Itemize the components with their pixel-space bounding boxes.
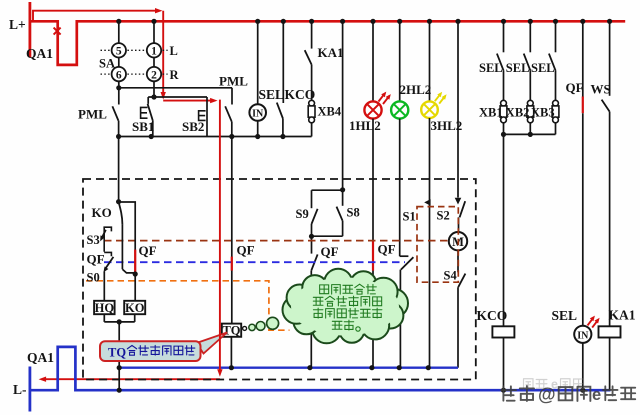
wire 3HL2 down (S1 branch)	[429, 118, 431, 368]
svg-text:S1: S1	[403, 210, 416, 224]
wire bus to IN lamp	[257, 21, 259, 104]
svg-text:5: 5	[116, 46, 122, 58]
linkage line S0-TQ (orange dashed)	[86, 281, 290, 330]
wire red highlight on KO bypass	[134, 250, 136, 274]
svg-text:TQ: TQ	[222, 324, 240, 338]
contact SEL #1	[503, 21, 505, 52]
svg-text:S2: S2	[437, 209, 450, 223]
lamp IN (SEL indicator)	[249, 104, 266, 121]
motor M (spring charging)	[449, 232, 467, 250]
wire XB1-XB3 junction	[504, 133, 556, 135]
breaker QA1 open-position x mark	[54, 28, 61, 35]
svg-text:2: 2	[151, 69, 157, 81]
mechanism arrow S2	[455, 198, 462, 205]
cloud text line1 在开关合闸	[320, 285, 329, 294]
node junction 6-branch	[116, 85, 121, 90]
SA dotted leaders row 1	[101, 49, 111, 51]
wire L+ bus with QA1 dip	[30, 21, 625, 65]
coil KCO	[492, 326, 514, 337]
wire bus to 2HL2	[399, 21, 401, 101]
wire XB1 down	[503, 123, 505, 135]
coil TQ (tripping)	[222, 324, 241, 337]
svg-text:KA1: KA1	[318, 45, 344, 60]
selector SA contact 2	[147, 67, 161, 81]
pushbutton SB1	[147, 97, 149, 104]
contact KA1 (NO)	[311, 21, 313, 48]
wire coils to L- bus	[118, 322, 120, 390]
wire bus to SA contact 5	[118, 21, 120, 43]
svg-text:QA1: QA1	[26, 46, 53, 61]
wire XB3 down	[555, 123, 557, 135]
wire QF red highlight	[582, 97, 584, 114]
wire L- main bus with QA1 step	[30, 347, 611, 390]
wire red current-flow arrow (top)	[33, 11, 157, 22]
contact KCO	[282, 21, 284, 103]
svg-text:HQ: HQ	[95, 301, 115, 315]
pushbutton SB2	[206, 97, 208, 137]
svg-text:TQ: TQ	[108, 345, 126, 359]
wire blue bus (inner, mechanism)	[119, 367, 458, 369]
svg-text:IN: IN	[252, 109, 264, 120]
svg-text:IN: IN	[577, 331, 589, 342]
wire node to KO coil	[134, 274, 136, 301]
wire QF branch down to SEL lamp	[582, 113, 584, 326]
annotation cloud	[283, 269, 409, 344]
mechanism enclosure (black dashed box)	[83, 179, 476, 380]
wire bus down to S9/S8 loop	[342, 21, 344, 190]
lamp 2HL2 (green)	[391, 101, 408, 118]
contact KO	[119, 202, 123, 225]
node L+ terminal bar	[28, 2, 31, 58]
svg-text:SEL: SEL	[479, 61, 503, 75]
svg-text:XB3: XB3	[531, 106, 555, 120]
wire bus to 3HL2	[429, 21, 431, 101]
coil KO	[124, 301, 145, 314]
svg-text:S3: S3	[87, 233, 100, 247]
coil KA1	[599, 326, 621, 337]
wire KCO coil to L- bus	[503, 338, 505, 391]
wire KA1 coil to L- bus	[609, 338, 611, 391]
wire SA2 down to node	[153, 81, 155, 97]
contact SEL #3	[555, 21, 557, 52]
contact PML (right)	[231, 88, 233, 105]
cloud text line2 过程中分闸弹	[313, 297, 323, 305]
contact QF (S9 branch)	[311, 236, 313, 253]
selector SA contact 6	[112, 67, 126, 81]
fuse XB4	[309, 100, 315, 106]
thought bubble trail	[243, 326, 247, 330]
svg-text:KA1: KA1	[609, 308, 636, 323]
contact SEL #2	[529, 21, 531, 52]
svg-text:PML: PML	[219, 74, 248, 89]
wire horizontal y97 SB1 to SB2	[148, 96, 207, 98]
svg-text:L+: L+	[9, 17, 26, 32]
wire junction down to KCO coil	[503, 134, 505, 326]
wire bus down into box (left)	[118, 137, 120, 203]
svg-text:6: 6	[116, 69, 122, 81]
node above KO coil	[133, 271, 138, 276]
node dots on L+ bus	[116, 19, 121, 24]
lamp SEL IN (lit)	[574, 326, 591, 343]
svg-text:QF: QF	[566, 80, 584, 95]
fuse XB1	[501, 100, 507, 106]
fuse XB3	[553, 100, 559, 106]
wire red highlight on 1HL2 branch	[372, 241, 374, 271]
wire control bus y136.5	[119, 136, 312, 138]
svg-text:SEL: SEL	[552, 308, 578, 323]
SA dotted leaders row 2	[101, 73, 111, 75]
contact QF/S0 with arrow blade	[105, 257, 114, 270]
svg-text:KO: KO	[92, 205, 112, 220]
wire red current-flow vertical to SA	[162, 11, 164, 94]
svg-text:SEL: SEL	[259, 87, 285, 102]
svg-text:1: 1	[151, 46, 157, 58]
svg-text:e: e	[592, 386, 601, 404]
wire 5 to 6	[118, 58, 120, 67]
wire KO bypass (right)	[119, 202, 136, 274]
node SB1 leg bottom	[149, 134, 154, 139]
wire red highlight above TQ	[231, 257, 233, 271]
watermark bold 头条 @电工e学堂	[501, 385, 635, 405]
svg-text:QF: QF	[139, 243, 157, 258]
svg-text:SB1: SB1	[132, 119, 154, 134]
limit switch S9 / S8 parallel loop	[312, 189, 343, 191]
node L- terminal bar	[28, 367, 31, 412]
watermark faint 电工e学堂	[524, 378, 584, 392]
wire M to S4	[457, 250, 459, 272]
wire 1 to 2	[153, 58, 155, 67]
linkage line S3 (brown dashed)	[104, 240, 449, 242]
svg-text:L: L	[170, 44, 178, 58]
node dots on L- bus	[117, 388, 122, 393]
wire red current-flow vertical to TQ	[219, 100, 221, 371]
svg-text:KO: KO	[125, 301, 145, 315]
node PML/SB1 bottom	[116, 134, 121, 139]
wire SEL lamp to L- bus	[582, 343, 584, 390]
cloud text line3 簧已经被拉伸	[313, 308, 322, 318]
svg-text:KCO: KCO	[477, 308, 508, 323]
svg-text:SA: SA	[99, 57, 115, 71]
svg-text:QF: QF	[378, 242, 396, 257]
node S9/S8 bottom	[309, 234, 314, 239]
mechanism arrow S1	[424, 199, 430, 206]
wire red current-flow horizontal to SB2	[163, 100, 212, 102]
svg-text:S0: S0	[87, 271, 100, 285]
wire XB4 to bus corner	[311, 123, 313, 137]
callout pointer	[197, 333, 228, 354]
wire SA6 down to node	[118, 81, 120, 88]
cloud text line4 储能。	[332, 321, 342, 329]
svg-text:1HL2: 1HL2	[349, 118, 381, 133]
node dots on inner blue bus	[117, 365, 122, 370]
svg-text:2HL2: 2HL2	[400, 82, 432, 97]
linkage line QF (blue dashed)	[104, 261, 405, 263]
contact PML (left)	[118, 88, 120, 105]
svg-text:XB1: XB1	[479, 106, 503, 120]
contact S4	[458, 274, 465, 288]
wire PML right down to TQ coil	[231, 137, 233, 324]
svg-text:QF: QF	[237, 243, 255, 258]
wire bus to SA contact 1	[153, 21, 155, 43]
svg-text:QF: QF	[321, 244, 339, 259]
fuse XB2	[527, 100, 533, 106]
contact WS	[609, 21, 611, 96]
contact S2	[460, 201, 466, 217]
wire HQ/KO join	[104, 321, 134, 323]
switch S3 (mechanism contact)	[104, 227, 111, 252]
svg-text:S9: S9	[296, 207, 309, 221]
svg-text:@: @	[538, 385, 556, 405]
node junction 2-branch	[151, 94, 156, 99]
wire red current-flow bottom return to L-	[43, 378, 220, 380]
node KO branch top	[116, 199, 121, 204]
selector SA contact 1	[147, 43, 161, 57]
svg-text:QF: QF	[87, 252, 105, 267]
svg-text:PML: PML	[78, 107, 107, 122]
wire XB2 down	[529, 123, 531, 135]
lamp 3HL2 (yellow, lit)	[421, 101, 438, 118]
selector SA contact 5	[112, 43, 126, 57]
svg-text:L-: L-	[13, 382, 27, 397]
wire horizontal y88 to PML right	[119, 87, 232, 89]
svg-text:SB2: SB2	[182, 119, 204, 134]
linkage box S2/M/S4 (brown dashed)	[417, 207, 458, 283]
wire TQ to blue bus	[230, 337, 232, 368]
wire bus to 1HL2	[372, 21, 374, 101]
svg-text:XB4: XB4	[318, 105, 342, 119]
svg-text:S4: S4	[444, 269, 458, 283]
wire IN lamp to bus	[257, 121, 259, 137]
wire 1HL2 down through box	[372, 119, 374, 368]
svg-text:QA1: QA1	[27, 350, 54, 365]
svg-text:SEL: SEL	[531, 61, 555, 75]
svg-text:WS: WS	[591, 82, 611, 97]
svg-text:SEL: SEL	[506, 61, 530, 75]
wire KO bottom	[134, 314, 136, 322]
svg-text:S8: S8	[347, 206, 360, 220]
wire bus to S2	[457, 21, 459, 197]
contact QF (2HL2 branch)	[399, 119, 401, 257]
node PML right bottom	[229, 134, 234, 139]
lamp 1HL2 (red, lit)	[364, 101, 381, 118]
svg-text:XB2: XB2	[506, 106, 530, 120]
svg-text:R: R	[170, 68, 180, 82]
coil HQ (closing)	[94, 301, 115, 314]
wire HQ bottom	[103, 314, 105, 322]
callout box TQ得电开关分闸	[100, 341, 201, 361]
wire bus QF branch	[582, 21, 584, 97]
wire S0 to HQ coil	[103, 272, 105, 301]
